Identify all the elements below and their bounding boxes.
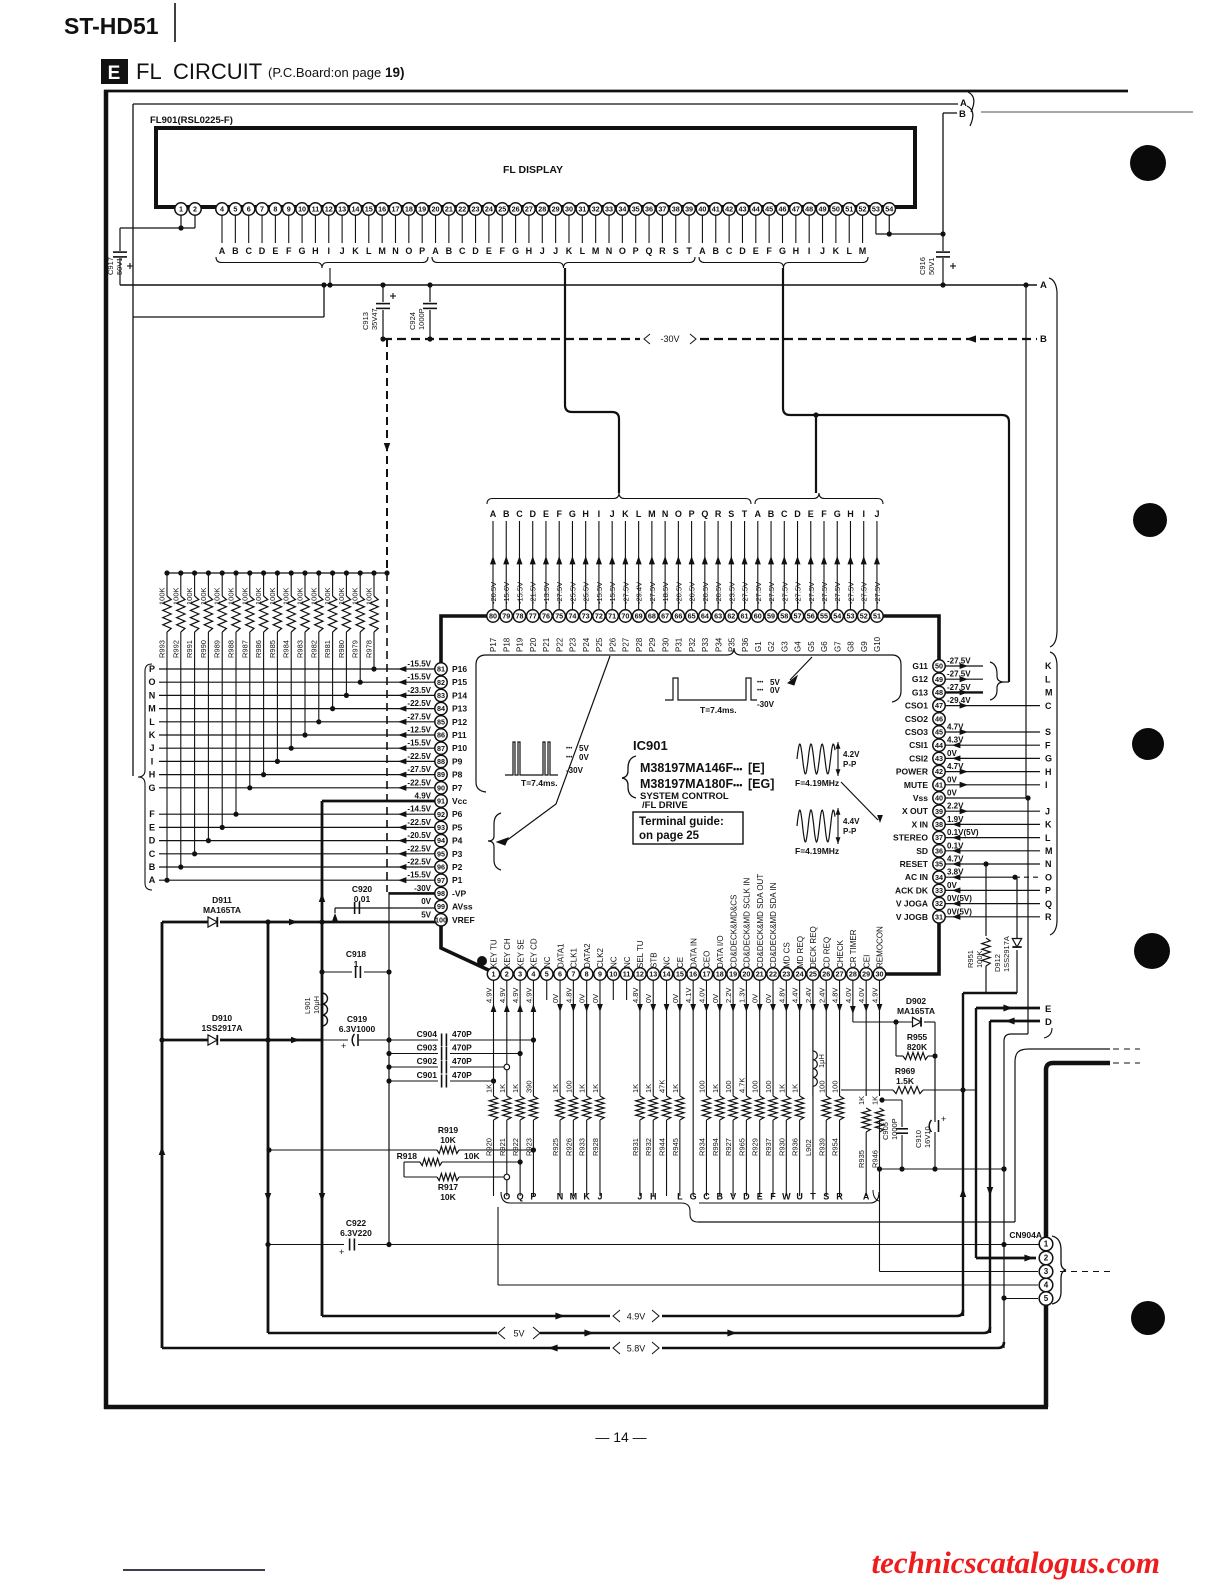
svg-text:G7: G7 [833,641,842,652]
svg-text:G: G [299,246,306,256]
svg-text:B: B [1040,334,1047,345]
svg-text:R986: R986 [254,640,263,658]
svg-text:O: O [1045,872,1052,882]
svg-text:R921: R921 [498,1138,507,1156]
svg-text:0.1V: 0.1V [947,841,964,850]
capacitor C902 470P [389,1066,438,1068]
svg-text:H: H [650,1192,657,1202]
svg-text:-20.5V: -20.5V [674,582,683,604]
svg-text:T=7.4ms.: T=7.4ms. [700,705,737,715]
svg-text:-27.5V: -27.5V [947,670,971,679]
svg-text:1K: 1K [644,1084,653,1093]
svg-text:1SS2917A: 1SS2917A [1002,936,1011,972]
svg-text:100: 100 [435,915,447,924]
wire rail x963 to 4.9V [962,993,964,1316]
bus 4.9V [322,1315,610,1318]
svg-text:B: B [232,246,239,256]
svg-text:N: N [392,246,399,256]
svg-text:CIRCUIT: CIRCUIT [173,59,262,84]
IC901 pin 75 P22 [558,521,560,610]
svg-text:O: O [405,246,412,256]
connector CN904A pin 3 [1039,1265,1053,1279]
svg-text:R918: R918 [397,1151,418,1161]
svg-text:10: 10 [609,970,617,979]
svg-text:F: F [499,246,505,256]
wire pins 53-54 to C916 [875,215,877,234]
svg-text:-27.5V: -27.5V [860,582,869,604]
svg-text:4: 4 [220,205,224,214]
svg-text:B: B [149,862,156,872]
svg-text:N: N [149,690,156,700]
IC901 pin 91 Vcc [435,795,447,807]
IC901 pin 53 G8 [849,521,851,610]
svg-text:27: 27 [836,970,844,979]
svg-text:48: 48 [805,205,813,214]
FL display box [156,128,915,207]
svg-text:MUTE: MUTE [904,780,928,790]
svg-text:C903: C903 [417,1043,438,1053]
svg-text:42: 42 [935,767,943,776]
svg-text:C913: C913 [361,312,370,330]
svg-text:5: 5 [233,205,237,214]
IC901 pin 95 P3 [435,848,447,860]
svg-text:AVss: AVss [452,902,473,912]
IC901 pin 80 P17 [492,521,494,610]
svg-text:-23.5V: -23.5V [407,686,431,695]
bus 5.8V [162,1347,610,1350]
wire rail x162 [161,922,164,1348]
svg-text:1: 1 [1044,1240,1049,1249]
svg-text:4.9V: 4.9V [627,1312,646,1322]
terminal guide box [633,812,743,844]
svg-text:R923: R923 [524,1138,533,1156]
wire pin 5 NC stub [546,980,548,1000]
svg-text:41: 41 [935,780,943,789]
svg-text:19: 19 [729,970,737,979]
svg-text:N: N [1045,859,1052,869]
svg-text:4.0V: 4.0V [857,988,866,1003]
node A vertical wire right x1026 [1025,285,1027,798]
IC901 part numbers [622,756,636,798]
svg-text:48: 48 [935,688,943,697]
svg-text:2: 2 [193,205,197,214]
svg-text:R929: R929 [751,1138,760,1156]
svg-text:D910: D910 [212,1013,233,1023]
svg-text:1SS2917A: 1SS2917A [201,1023,242,1033]
wire pin 2 down [506,980,508,1096]
svg-text:36: 36 [935,846,943,855]
svg-text:R954: R954 [831,1138,840,1156]
svg-text:6.3V1000: 6.3V1000 [339,1024,376,1034]
svg-text:CSI1: CSI1 [909,740,928,750]
svg-text:41: 41 [712,205,720,214]
svg-text:M: M [570,1192,578,1202]
brace display group 3 [699,257,868,268]
svg-text:L: L [677,1192,683,1202]
svg-text:16: 16 [689,970,697,979]
wire pin 30 down [878,980,880,1096]
svg-text:R989: R989 [213,640,222,658]
svg-text:43: 43 [738,205,746,214]
svg-text:R991: R991 [185,640,194,658]
svg-text:AC IN: AC IN [905,872,928,882]
svg-text:P12: P12 [452,717,467,727]
svg-text:0V: 0V [947,749,957,758]
resistor R982 100K [316,570,321,575]
svg-text:2.4V: 2.4V [804,988,813,1003]
svg-text:NC: NC [623,956,632,968]
svg-text:V: V [730,1192,736,1202]
wire pin 17 down [705,980,707,1096]
svg-text:I: I [151,756,154,766]
svg-text:R992: R992 [171,640,180,658]
svg-text:R994: R994 [711,1138,720,1156]
svg-text:R935: R935 [857,1150,866,1168]
svg-text:C924: C924 [408,312,417,330]
dashed -30V vertical wire [386,339,388,573]
svg-text:69: 69 [635,612,643,621]
IC901 pin 98 -VP [435,887,447,899]
svg-text:M38197MA180F: M38197MA180F [640,777,733,791]
svg-text:1K: 1K [870,1096,879,1105]
svg-text:F: F [556,509,562,519]
IC901 pin 52 G9 [863,521,865,610]
svg-text:E: E [1045,1004,1051,1015]
svg-text:P34: P34 [714,637,723,652]
wire rail x322 [321,922,324,1316]
svg-text:H: H [149,770,156,780]
svg-text:-15.6V: -15.6V [502,582,511,604]
svg-text:93: 93 [437,823,445,832]
svg-text:P28: P28 [635,637,644,652]
wire pin 1 down [493,980,495,1096]
svg-text:4.1V: 4.1V [684,988,693,1003]
svg-text:J: J [874,509,879,519]
svg-text:I: I [1045,780,1048,790]
IC901 pin 58 G3 [783,521,785,610]
svg-text:-27.5V: -27.5V [407,712,431,721]
svg-text:B: B [713,246,720,256]
svg-text:R981: R981 [323,640,332,658]
IC901 pin 51 G10 [876,521,878,610]
svg-text:CD&DECK&MD SDA OUT: CD&DECK&MD SDA OUT [756,874,765,968]
svg-text:100: 100 [724,1080,733,1093]
svg-text:B: B [768,509,775,519]
svg-text:4.9V: 4.9V [485,988,494,1003]
svg-text:R917: R917 [438,1182,459,1192]
svg-text:56: 56 [807,612,815,621]
svg-text:-27.5V: -27.5V [794,582,803,604]
svg-text:X OUT: X OUT [902,806,929,816]
svg-text:89: 89 [437,770,445,779]
svg-text:P26: P26 [608,637,617,652]
svg-text:P: P [530,1192,536,1202]
svg-text:P: P [419,246,425,256]
svg-text:R980: R980 [337,640,346,658]
capacitor C904 470P [389,1039,438,1041]
svg-text:F=4.19MHz: F=4.19MHz [795,846,839,856]
svg-text:P25: P25 [595,637,604,652]
svg-text:P8: P8 [452,770,463,780]
svg-text:P20: P20 [529,637,538,652]
svg-text:P11: P11 [452,730,467,740]
wire pin 27 down [839,980,841,1096]
svg-text:J: J [597,1192,602,1202]
svg-text:R990: R990 [199,640,208,658]
svg-text:L: L [846,246,852,256]
IC901 pin 87 P10 [435,742,447,754]
svg-text:-15.5V: -15.5V [515,582,524,604]
svg-text:(P.C.Board:on page: (P.C.Board:on page [268,65,381,80]
wire pin 25 down [812,980,814,1096]
svg-text:3: 3 [518,970,522,979]
svg-text:G: G [690,1192,697,1202]
svg-text:P35: P35 [728,637,737,652]
wire CN904A pin5 feed [1004,1298,1038,1300]
wire pins 1-2 to C917 [180,215,182,228]
svg-text:DATA1: DATA1 [556,943,565,968]
brace top pins group1 [487,493,751,504]
svg-text:62: 62 [727,612,735,621]
svg-text:19): 19) [385,65,405,80]
wire pin 13 down [652,980,654,1096]
svg-text:B: B [959,109,966,120]
svg-text:86: 86 [437,731,445,740]
svg-text:P21: P21 [542,637,551,652]
svg-text:-15.5V: -15.5V [407,673,431,682]
svg-text:T: T [742,509,748,519]
svg-text:CLK2: CLK2 [596,947,605,968]
svg-text:53: 53 [846,612,854,621]
svg-text:+: + [341,1041,346,1051]
svg-text:28: 28 [538,205,546,214]
svg-text:-14.5V: -14.5V [407,805,431,814]
svg-text:DATA2: DATA2 [583,943,592,968]
svg-text:•••: ••• [733,780,742,790]
svg-text:4.7K: 4.7K [737,1078,746,1093]
svg-text:R945: R945 [671,1138,680,1156]
svg-text:1K: 1K [857,1096,866,1105]
svg-text:D912: D912 [993,954,1002,972]
svg-text:C: C [516,509,523,519]
svg-text:3: 3 [1044,1267,1049,1276]
svg-text:1.9V: 1.9V [947,815,964,824]
svg-text:46: 46 [935,714,943,723]
svg-text:K: K [1045,661,1052,671]
svg-text:C: C [245,246,252,256]
wire pin 23 down [785,980,787,1096]
svg-text:11: 11 [312,205,320,214]
svg-text:Q: Q [1045,899,1052,909]
resistor R992 100K [178,570,183,575]
svg-text:1K: 1K [578,1084,587,1093]
svg-text:25: 25 [498,205,506,214]
svg-text:J: J [149,743,154,753]
IC901 pin 90 P7 [435,782,447,794]
svg-text:/FL DRIVE: /FL DRIVE [642,800,688,811]
IC901 pin 59 G2 [770,521,772,610]
svg-text:33: 33 [935,886,943,895]
svg-text:M: M [1045,688,1053,698]
svg-text:-15.5V: -15.5V [407,660,431,669]
svg-text:34: 34 [618,205,626,214]
svg-text:50: 50 [832,205,840,214]
FL901 pin circles 1-54 [175,203,187,215]
svg-text:A: A [960,98,967,109]
svg-text:Q: Q [701,509,708,519]
brace top pins group2 [755,493,883,504]
svg-text:G: G [1045,754,1052,764]
svg-text:-27.5V: -27.5V [754,582,763,604]
svg-text:P13: P13 [452,704,467,714]
svg-text:P18: P18 [502,637,511,652]
svg-text:24: 24 [485,205,493,214]
svg-text:72: 72 [595,612,603,621]
svg-text:26: 26 [512,205,520,214]
svg-text:14: 14 [663,970,671,979]
svg-text:C901: C901 [417,1070,438,1080]
wire right stub thick y1063 [1046,1063,1110,1407]
IC901 pin 73 P24 [585,521,587,610]
capacitor C901 470P [389,1080,438,1082]
svg-text:CSI2: CSI2 [909,753,928,763]
svg-text:M: M [1045,846,1053,856]
svg-text:F: F [766,246,772,256]
svg-text:KEY CH: KEY CH [503,938,512,968]
svg-text:32: 32 [592,205,600,214]
svg-text:R936: R936 [791,1138,800,1156]
svg-text:90: 90 [437,783,445,792]
svg-text:68: 68 [648,612,656,621]
svg-text:100: 100 [697,1080,706,1093]
pulse waveform left T=7.4ms [505,742,558,775]
svg-text:0V: 0V [947,775,957,784]
svg-text:37: 37 [658,205,666,214]
svg-text:-27.5V: -27.5V [947,657,971,666]
svg-text:80: 80 [489,612,497,621]
svg-text:81: 81 [437,665,445,674]
svg-text:0V: 0V [764,994,773,1003]
wire CN904A pin2 feed thick [976,1257,1036,1260]
svg-text:U: U [796,1192,803,1202]
connector CN904A pin 2 [1039,1251,1053,1265]
pointer line bracket to P6-P1 brace [506,656,610,841]
svg-text:technicscatalogus.com: technicscatalogus.com [872,1545,1160,1580]
wire D902 right vertical [934,1022,936,1122]
svg-text:Q: Q [517,1192,524,1202]
svg-text:A: A [755,509,762,519]
svg-text:C922: C922 [346,1218,367,1228]
svg-text:J: J [340,246,345,256]
IC901 pin 82 P15 [435,676,447,688]
svg-text:SD: SD [916,846,928,856]
svg-text:55: 55 [820,612,828,621]
svg-text:0V: 0V [947,881,957,890]
IC901 pin 71 P26 [611,521,613,610]
svg-text:P1: P1 [452,875,463,885]
svg-text:-29.4V: -29.4V [635,582,644,604]
svg-text:K: K [1045,820,1052,830]
capacitor C913 35V47 [382,285,384,302]
svg-text:-27.5V: -27.5V [767,582,776,604]
svg-text:B: B [717,1192,724,1202]
svg-text:•••: ••• [757,688,763,694]
svg-text:-22.5V: -22.5V [407,778,431,787]
svg-text:52: 52 [860,612,868,621]
svg-text:1000P: 1000P [417,308,426,330]
svg-text:44: 44 [752,205,760,214]
svg-text:G5: G5 [807,641,816,652]
svg-text:P7: P7 [452,783,463,793]
svg-text:470P: 470P [452,1029,472,1039]
wire pin 3 down [519,980,521,1096]
node A bus wire [120,284,1037,286]
svg-text:0V: 0V [711,994,720,1003]
svg-text:E: E [753,246,759,256]
svg-text:-12.5V: -12.5V [407,726,431,735]
svg-text:21: 21 [756,970,764,979]
svg-text:J: J [820,246,825,256]
svg-text:C919: C919 [347,1014,368,1024]
svg-text:G: G [148,783,155,793]
svg-text:5: 5 [545,970,549,979]
svg-text:10K: 10K [440,1135,456,1145]
svg-text:34: 34 [935,873,943,882]
binding hole dot 4 [1134,933,1170,969]
svg-text:V JOGB: V JOGB [896,912,928,922]
svg-text:1: 1 [179,205,183,214]
svg-text:L: L [366,246,372,256]
svg-text:0V: 0V [591,994,600,1003]
IC901 pin 94 P4 [435,834,447,846]
svg-text:R: R [659,246,666,256]
IC901 pin 60 G1 [757,521,759,610]
svg-text:4.7V: 4.7V [947,855,964,864]
brace display group 1 [216,257,428,268]
svg-text:P30: P30 [661,637,670,652]
brace IC left pins P6-P1 [488,813,501,870]
capacitor C924 1000P [429,285,431,302]
svg-text:R919: R919 [438,1125,459,1135]
svg-text:Vcc: Vcc [452,796,467,806]
svg-text:A: A [1040,280,1047,291]
resistor R984 100K [289,570,294,575]
svg-text:CD REQ: CD REQ [822,937,831,968]
IC901 pin 66 P31 [677,521,679,610]
svg-text:9: 9 [287,205,291,214]
brace display group 2 [432,257,695,268]
svg-text:R: R [1045,912,1052,922]
svg-text:25: 25 [809,970,817,979]
svg-text:R979: R979 [351,640,360,658]
svg-text:46: 46 [778,205,786,214]
svg-text:D: D [794,509,801,519]
svg-text:G6: G6 [820,641,829,652]
svg-text:J: J [540,246,545,256]
svg-text:J: J [553,246,558,256]
svg-text:H: H [312,246,319,256]
IC901 pin 76 P21 [545,521,547,610]
svg-text:38: 38 [935,820,943,829]
wire pin 8 down [586,980,588,1096]
svg-text:E: E [757,1192,763,1202]
wire ladder feed horizontal [133,316,324,318]
svg-text:100: 100 [564,1080,573,1093]
connector CN904A pin 5 [1039,1292,1053,1306]
IC901 pin 79 P18 [505,521,507,610]
node A top wire [133,103,958,105]
wire pin 12 down [639,980,641,1096]
